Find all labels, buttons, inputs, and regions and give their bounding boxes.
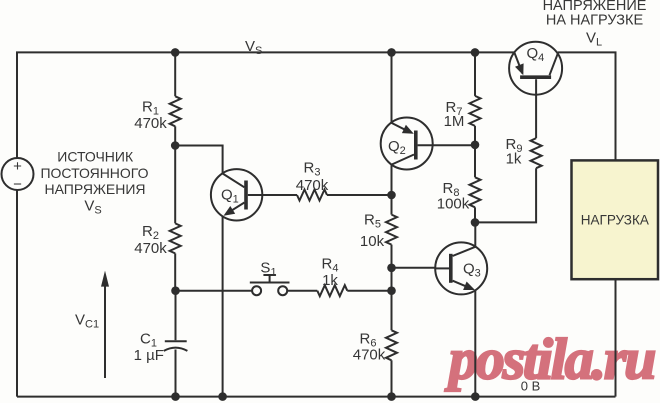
transistor Q3 circle [435, 242, 487, 294]
wire Q2 collector to node [391, 165, 393, 215]
Vc1 arrow line [104, 280, 106, 378]
transistor Q1 base bar [244, 181, 248, 210]
node R7 R8 Q2 base [471, 141, 480, 150]
wire node to Q1 collector [175, 146, 222, 174]
switch S1 left contact [252, 286, 261, 295]
svg-text:1k: 1k [506, 151, 522, 168]
svg-text:1M: 1M [444, 113, 465, 130]
resistor R2 [170, 223, 181, 253]
transistor Q1 emitter diagonal [227, 203, 245, 214]
wire node to C1 [175, 291, 177, 341]
load box НАГРУЗКА [572, 160, 659, 279]
svg-text:НАГРУЗКА: НАГРУЗКА [581, 212, 649, 227]
svg-text:+: + [13, 158, 22, 175]
node bottom rail R6 [387, 392, 396, 401]
node bottom rail C1 [171, 392, 180, 401]
wire Q2 emitter branch [391, 52, 393, 122]
wire S1 to R4 [287, 290, 317, 292]
transistor Q1 collector diagonal [223, 174, 245, 188]
node R2 C1 S1 [171, 286, 180, 295]
Vc1 arrow head [101, 271, 109, 287]
wire node to R9 bottom [475, 168, 536, 222]
wire R9 to Q4 base [535, 79, 537, 138]
transistor Q3 base lead [435, 267, 449, 269]
transistor Q1 circle [211, 169, 262, 220]
svg-text:470k: 470k [353, 347, 386, 364]
switch S1 actuator cap [263, 274, 276, 276]
transistor Q3 emitter diagonal [453, 281, 472, 289]
node R5 R6 Q3 base [387, 264, 396, 273]
node R3 Q2 R5 [387, 191, 396, 200]
transistor Q2 collector diagonal [392, 155, 415, 165]
wire R3 to node [327, 194, 392, 196]
svg-text:ИСТОЧНИК: ИСТОЧНИК [57, 149, 134, 165]
svg-text:1k: 1k [322, 272, 338, 289]
wire bottom rail [17, 396, 616, 398]
node R1 R2 Q1 [171, 141, 180, 150]
transistor Q2 emitter diagonal [392, 123, 408, 131]
svg-text:100k: 100k [437, 196, 470, 213]
resistor R4 [317, 285, 347, 296]
resistor R7 [470, 96, 481, 126]
svg-text:470k: 470k [134, 115, 167, 132]
svg-text:1 µF: 1 µF [134, 347, 164, 364]
wire R6 to bottom rail [391, 360, 393, 396]
wire R7 to node [474, 126, 476, 145]
resistor R3 [297, 190, 327, 201]
wire R5 node down through R4 node [391, 268, 393, 331]
transistor Q3 collector diagonal [453, 247, 476, 256]
wire R7 branch [474, 52, 476, 96]
wire R1 branch top [174, 52, 176, 96]
switch S1 actuator [269, 275, 271, 283]
resistor R1 [170, 96, 181, 126]
wire R8 to node [474, 207, 476, 222]
wire S1 R4 row [176, 290, 253, 292]
transistor Q3 emitter wire down [474, 290, 476, 396]
node bottom rail Q3 [471, 392, 480, 401]
resistor R5 [386, 215, 397, 245]
transistor Q4 circle [509, 42, 562, 95]
Q3 emitter arrow head [463, 282, 475, 291]
switch S1 right contact [278, 286, 287, 295]
wire R2 below node [174, 146, 176, 224]
svg-text:10k: 10k [360, 233, 385, 250]
wire R2 to node [174, 253, 176, 290]
wire R5 to node [391, 245, 393, 268]
node top rail R7 [471, 48, 480, 57]
wire load to bottom rail [615, 279, 617, 396]
svg-text:0 В: 0 В [521, 379, 541, 394]
voltage source circle [2, 158, 34, 190]
transistor Q1 base lead [248, 194, 262, 196]
Q2 emitter arrow head (into bar) [402, 125, 414, 134]
resistor R8 [470, 177, 481, 207]
Q1 emitter arrow head [224, 206, 236, 216]
capacitor C1 bottom plate [164, 348, 188, 351]
svg-text:−: − [13, 176, 22, 193]
wire left side down from source [16, 190, 18, 397]
wire node to R8 [474, 145, 476, 178]
transistor Q3 base bar [449, 254, 453, 283]
transistor Q1 emitter wire down [222, 216, 224, 396]
wire Q1 base to R3 [262, 194, 297, 196]
capacitor C1 top plate [165, 340, 187, 342]
transistor Q4 collector diagonal [550, 54, 558, 75]
svg-text:НАПРЯЖЕНИЯ: НАПРЯЖЕНИЯ [44, 181, 145, 197]
svg-text:ПОСТОЯННОГО: ПОСТОЯННОГО [40, 165, 148, 181]
node R4 junction [387, 286, 396, 295]
transistor Q4 emitter diagonal [514, 52, 522, 73]
transistor Q2 base bar [414, 131, 418, 160]
transistor Q3 collector wire up [474, 222, 476, 246]
resistor R6 [386, 330, 397, 360]
node top rail Q2 [387, 48, 396, 57]
node bottom rail Q1 [218, 392, 227, 401]
svg-text:НА НАГРУЗКЕ: НА НАГРУЗКЕ [546, 12, 644, 28]
switch S1 bar [250, 282, 290, 284]
wire R4 to node [347, 290, 391, 292]
wire node to Q3 base [392, 267, 436, 269]
node top rail R1 [171, 48, 180, 57]
wire C1 to bottom rail [175, 350, 177, 397]
svg-text:470k: 470k [296, 177, 329, 194]
transistor Q2 circle [381, 118, 433, 170]
resistor R9 [531, 138, 542, 168]
wire top rail [17, 52, 514, 158]
node R8 Q3 collector R9 [471, 218, 480, 227]
wire Q4 collector to load [558, 52, 616, 160]
Q4 emitter arrow head (into bar) [515, 63, 524, 75]
svg-text:470k: 470k [134, 240, 167, 257]
transistor Q2 base lead [418, 144, 475, 146]
wire R1 to node [174, 126, 176, 145]
transistor Q4 base bar [520, 75, 551, 79]
